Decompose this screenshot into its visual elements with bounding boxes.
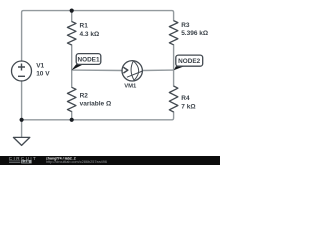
node NODE1 flag xyxy=(72,54,101,71)
wire: right branch R3 bottom to R4 top xyxy=(173,45,175,86)
svg-text:http://circuitlab.com/c286b257: http://circuitlab.com/c286b257ea496 xyxy=(46,160,107,164)
label R4 7 kOhm xyxy=(181,95,195,110)
resistor R3 xyxy=(169,21,178,45)
svg-text:VM1: VM1 xyxy=(124,84,137,90)
watermark bar xyxy=(0,156,220,165)
svg-text:NODE1: NODE1 xyxy=(77,56,99,63)
ground xyxy=(13,137,29,145)
svg-text:10 V: 10 V xyxy=(36,71,50,78)
label R2 variable Ohm xyxy=(80,92,112,107)
node NODE2 flag xyxy=(174,55,203,70)
wire: VM1 right terminal to NODE2 junction xyxy=(142,69,173,71)
wire: top rail to R1 top xyxy=(71,11,73,22)
svg-text:R3: R3 xyxy=(181,22,190,29)
svg-text:7 kΩ: 7 kΩ xyxy=(181,104,195,111)
svg-text:NODE2: NODE2 xyxy=(178,58,200,65)
svg-text:LAB: LAB xyxy=(22,160,29,164)
svg-text:R2: R2 xyxy=(80,92,89,99)
wire: top rail from V1 top to right branch xyxy=(22,11,174,61)
resistor R4 xyxy=(169,86,178,112)
label R3 5.396 kOhm xyxy=(181,22,208,37)
voltage source V1 xyxy=(12,61,32,81)
svg-text:variable Ω: variable Ω xyxy=(80,101,112,108)
wire: V1 bottom to bottom rail xyxy=(21,81,23,120)
junction dot on top rail at R1 branch xyxy=(70,9,74,13)
voltmeter VM1 xyxy=(122,61,143,81)
svg-text:4.3 kΩ: 4.3 kΩ xyxy=(80,31,100,38)
wire: R1 bottom to R2 top through NODE1 junction xyxy=(71,45,73,87)
svg-text:V1: V1 xyxy=(36,62,44,69)
junction dot bottom rail at V1/ground xyxy=(20,118,24,122)
svg-text:R1: R1 xyxy=(80,23,89,30)
svg-text:5.396 kΩ: 5.396 kΩ xyxy=(181,30,208,37)
junction dot bottom rail at R2 branch xyxy=(70,118,74,122)
label R1 4.3 kOhm xyxy=(80,23,100,38)
label V1 10 V xyxy=(36,62,50,77)
resistor R1 xyxy=(67,22,76,46)
wire: ground stub xyxy=(21,120,23,138)
label VM1 xyxy=(124,84,137,90)
svg-text:R4: R4 xyxy=(181,95,190,102)
wire: R2 bottom to bottom rail xyxy=(71,112,73,120)
wire: R4 bottom, bottom rail to left branch xyxy=(22,112,174,120)
wire: NODE1 junction to VM1 left terminal xyxy=(72,69,122,71)
resistor R2 xyxy=(67,87,76,111)
